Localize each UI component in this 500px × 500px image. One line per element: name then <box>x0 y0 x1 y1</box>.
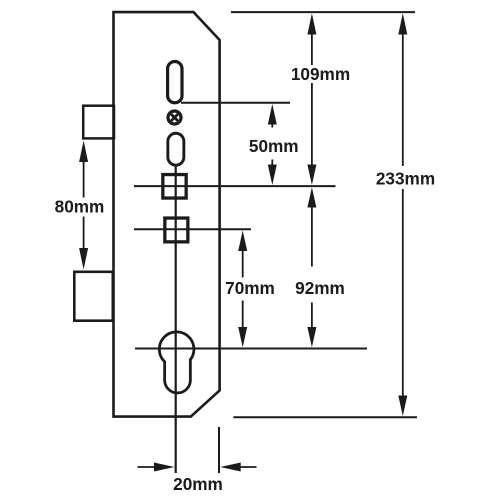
svg-text:80mm: 80mm <box>55 197 105 217</box>
svg-text:109mm: 109mm <box>291 64 350 84</box>
svg-text:20mm: 20mm <box>173 474 223 494</box>
svg-text:92mm: 92mm <box>295 278 345 298</box>
svg-text:70mm: 70mm <box>225 278 275 298</box>
svg-text:50mm: 50mm <box>249 136 299 156</box>
svg-text:233mm: 233mm <box>376 169 435 189</box>
